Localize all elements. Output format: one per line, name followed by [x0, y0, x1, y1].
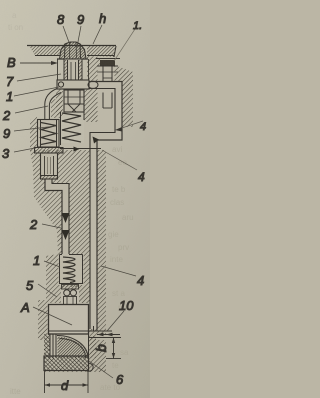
paper background: [0, 0, 150, 398]
curved tube from body to spring box 3: [45, 89, 57, 121]
faint bleed-through text right margin: [8, 11, 134, 396]
dimension 10 (small horizontal): [97, 333, 120, 336]
flow arrows on central pipe: [62, 213, 70, 223]
leader line label 8: [63, 26, 70, 45]
small curl mark near 6: [87, 363, 93, 371]
dimension d (bottom): [45, 371, 89, 393]
horizontal pipe to right box: [98, 81, 122, 83]
cavity bottom line: [60, 148, 101, 150]
dimension b (vertical): [106, 338, 121, 359]
leader line label 9 left: [14, 126, 56, 131]
box A: [49, 305, 89, 335]
main valve body: [64, 90, 84, 112]
chamber with curved plug: [44, 334, 96, 358]
spring box 1 white: [59, 254, 84, 285]
spring box 3: [38, 120, 60, 148]
arrow B head: [51, 61, 58, 65]
hatch right of curved tube: [51, 96, 62, 118]
arrow B shaft: [20, 62, 53, 64]
pipe outlet bottom marks: [89, 330, 113, 332]
leader line label 3: [14, 148, 35, 152]
leader line label 6: [89, 361, 113, 378]
nut dome 8: [57, 42, 88, 59]
left valve body white: [41, 153, 58, 179]
central pipe dark edges (elbow from valve): [45, 179, 62, 254]
casing lines beside cylinder: [57, 59, 59, 80]
connector white: [61, 287, 79, 303]
base band: [44, 356, 89, 371]
leader line label A: [33, 307, 72, 325]
spring 9 zigzag: [62, 113, 81, 142]
leader line label 7: [17, 74, 61, 81]
leader line label 4 middle: [102, 150, 137, 170]
leader line label 1 left: [14, 87, 59, 96]
right wall hatch block: [112, 64, 133, 127]
central pipe white channel: [49, 179, 66, 254]
left wall strip of main body: [56, 88, 63, 115]
ceiling right hatched bar: [87, 46, 116, 58]
leader line label 2 left: [15, 106, 48, 113]
small hatch left of spring box 3: [30, 116, 37, 152]
wall right of upper cylinder: [87, 56, 100, 89]
right wall strip of main body: [84, 89, 100, 122]
flange under box 3: [35, 148, 64, 154]
leader line label 5: [38, 284, 57, 297]
body walls around spring 9: [60, 112, 62, 145]
right piston component: [96, 59, 120, 109]
leader line label 4 lower: [101, 266, 136, 276]
chamber white: [50, 334, 89, 358]
box A white: [48, 303, 90, 336]
leader line label 1. top right: [114, 29, 135, 61]
upper cylinder 7: [64, 59, 82, 80]
ceiling top line: [27, 45, 116, 47]
right pipe dark edges: [89, 82, 122, 330]
flow arrow at right pipe jog: [93, 137, 100, 144]
leader line label 2 mid: [42, 224, 61, 228]
connector 5 with rollers: [62, 285, 79, 305]
flange with ports: [57, 80, 98, 89]
hatch band: flange under spring box 3: [34, 147, 63, 153]
leader line label 10: [107, 311, 124, 331]
spring box 1: [60, 255, 83, 285]
right pipe white channel: [89, 85, 119, 329]
leader line label 1 mid: [44, 261, 60, 267]
leader line label 4 upper: [119, 121, 143, 129]
small flow arrow at cavity corner: [74, 147, 80, 152]
leader line label h: [93, 25, 102, 44]
leader line label 9 top: [77, 26, 81, 47]
ceiling bottom edges: [35, 55, 60, 57]
leader arrowhead 4 upper: [115, 127, 122, 132]
ceiling left hatched bar: [29, 46, 60, 56]
central big hatched block: [30, 150, 106, 372]
left valve body (cylinder): [41, 153, 58, 180]
cavity below main body: [60, 122, 114, 148]
